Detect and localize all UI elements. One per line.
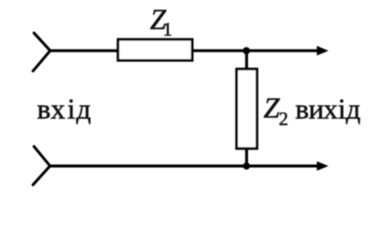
junction node top [243,47,250,54]
svg-text:вихід: вихід [295,94,361,126]
label Z2 [264,93,289,130]
input terminal top chevron [33,33,50,71]
wire top: Z1 to output arrow [192,49,320,52]
junction node bottom [243,162,250,169]
svg-text:вхід: вхід [37,94,91,126]
wire top: terminal to Z1 [50,49,118,52]
resistor Z1 [118,39,192,60]
svg-text:1: 1 [163,19,173,40]
arrowhead top output [317,46,329,56]
arrowhead bottom output [317,161,329,171]
input terminal bottom chevron [33,147,50,185]
label Z1 [150,4,172,41]
wire bottom: terminal to output arrow [50,165,320,168]
resistor Z2 [237,69,257,149]
wire: Z2 to bottom junction [245,149,248,167]
svg-text:2: 2 [279,109,289,130]
wire: top junction to Z2 [245,51,248,69]
